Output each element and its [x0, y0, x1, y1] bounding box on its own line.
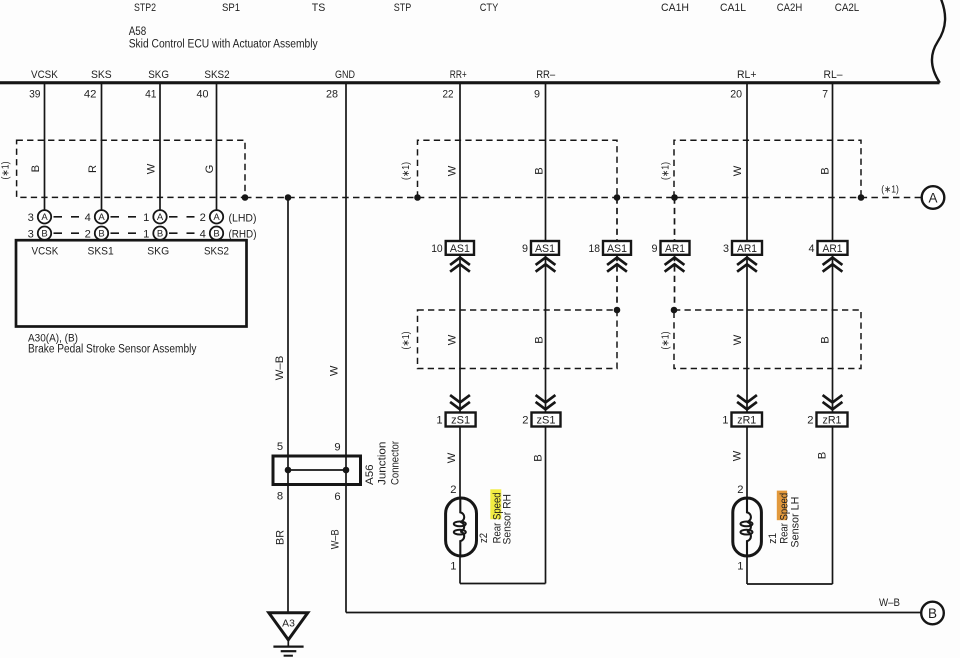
svg-text:zR1: zR1	[737, 415, 756, 427]
svg-text:AS1: AS1	[607, 243, 627, 255]
svg-text:CA1L: CA1L	[720, 2, 746, 14]
svg-text:SP1: SP1	[222, 2, 240, 14]
svg-text:B: B	[30, 165, 42, 172]
svg-text:9: 9	[534, 89, 540, 101]
svg-text:4: 4	[85, 212, 91, 224]
svg-text:B: B	[533, 454, 545, 461]
svg-text:W: W	[446, 452, 458, 463]
svg-text:AS1: AS1	[450, 243, 470, 255]
svg-text:W: W	[732, 165, 744, 176]
svg-text:z1: z1	[767, 533, 779, 544]
svg-text:A: A	[928, 190, 937, 205]
svg-text:2: 2	[200, 212, 206, 224]
svg-text:SKG: SKG	[147, 246, 169, 258]
svg-text:22: 22	[443, 89, 454, 101]
svg-text:CA1H: CA1H	[661, 2, 689, 14]
svg-text:A58: A58	[129, 26, 147, 38]
svg-text:42: 42	[84, 89, 97, 101]
svg-text:SKS2: SKS2	[204, 246, 229, 258]
svg-text:z2: z2	[478, 533, 490, 543]
svg-text:(∗1): (∗1)	[401, 162, 412, 180]
svg-text:A: A	[41, 212, 48, 223]
svg-text:BR: BR	[275, 530, 287, 545]
svg-text:(LHD): (LHD)	[229, 212, 257, 224]
svg-text:1: 1	[450, 561, 456, 573]
svg-text:10: 10	[431, 243, 443, 255]
svg-text:zS1: zS1	[537, 415, 556, 427]
svg-text:1: 1	[143, 228, 149, 240]
svg-text:CA2L: CA2L	[835, 2, 860, 14]
svg-text:Connector: Connector	[390, 441, 402, 485]
svg-text:2: 2	[737, 484, 743, 496]
svg-text:(∗1): (∗1)	[401, 332, 412, 350]
svg-text:A56: A56	[364, 464, 376, 485]
svg-text:2: 2	[522, 415, 528, 427]
svg-text:1: 1	[436, 415, 442, 427]
svg-text:G: G	[204, 165, 216, 174]
svg-text:B: B	[820, 167, 832, 174]
svg-text:5: 5	[277, 441, 283, 453]
svg-text:AS1: AS1	[535, 243, 555, 255]
svg-text:VCSK: VCSK	[31, 69, 58, 81]
svg-text:18: 18	[589, 243, 601, 255]
svg-text:B: B	[817, 452, 829, 459]
svg-text:(∗1): (∗1)	[661, 332, 672, 350]
svg-text:9: 9	[522, 243, 528, 255]
svg-text:9: 9	[652, 243, 658, 255]
svg-text:(∗1): (∗1)	[661, 162, 672, 180]
svg-text:B: B	[41, 229, 47, 240]
svg-text:A: A	[98, 212, 105, 223]
svg-text:W–B: W–B	[274, 356, 286, 381]
svg-text:AR1: AR1	[665, 243, 685, 255]
svg-text:1: 1	[737, 561, 743, 573]
svg-text:W–B: W–B	[330, 529, 342, 549]
svg-text:SKS: SKS	[91, 69, 112, 81]
svg-text:VCSK: VCSK	[32, 246, 59, 258]
svg-text:B: B	[820, 336, 832, 343]
svg-text:B: B	[98, 229, 104, 240]
svg-text:2: 2	[450, 484, 456, 496]
svg-text:SKG: SKG	[148, 69, 169, 81]
svg-text:Sensor RH: Sensor RH	[502, 494, 514, 545]
svg-text:zS1: zS1	[451, 415, 470, 427]
svg-text:40: 40	[197, 89, 209, 101]
svg-text:(∗1): (∗1)	[881, 185, 899, 196]
svg-text:AR1: AR1	[737, 243, 757, 255]
svg-text:RR–: RR–	[536, 69, 556, 81]
svg-text:Sensor LH: Sensor LH	[790, 497, 802, 548]
svg-text:B: B	[157, 229, 163, 240]
svg-text:W: W	[146, 163, 158, 174]
svg-text:W: W	[732, 334, 744, 345]
svg-text:W: W	[329, 365, 341, 376]
svg-text:SKS2: SKS2	[204, 69, 229, 81]
svg-text:1: 1	[143, 212, 149, 224]
svg-text:4: 4	[809, 243, 815, 255]
svg-text:2: 2	[85, 228, 91, 240]
svg-text:SKS1: SKS1	[88, 246, 114, 258]
svg-text:GND: GND	[335, 69, 355, 81]
svg-text:4: 4	[200, 228, 206, 240]
svg-text:A: A	[213, 212, 220, 223]
svg-text:zR1: zR1	[823, 415, 842, 427]
svg-text:W: W	[732, 450, 744, 461]
svg-text:2: 2	[807, 415, 813, 427]
svg-text:CTY: CTY	[480, 2, 499, 14]
svg-text:39: 39	[29, 89, 40, 101]
svg-text:3: 3	[28, 228, 34, 240]
svg-text:RL–: RL–	[824, 69, 844, 81]
svg-text:W: W	[447, 334, 459, 345]
svg-text:AR1: AR1	[823, 243, 843, 255]
svg-text:Skid Control ECU with Actuator: Skid Control ECU with Actuator Assembly	[129, 38, 318, 50]
svg-text:Junction: Junction	[377, 442, 389, 485]
svg-text:1: 1	[722, 415, 728, 427]
svg-text:R: R	[87, 165, 99, 173]
svg-text:CA2H: CA2H	[777, 2, 803, 14]
svg-text:Brake Pedal Stroke Sensor Asse: Brake Pedal Stroke Sensor Assembly	[28, 344, 197, 356]
svg-text:41: 41	[145, 89, 156, 101]
svg-text:20: 20	[730, 89, 742, 101]
svg-text:3: 3	[28, 212, 34, 224]
svg-text:3: 3	[723, 243, 729, 255]
svg-text:W–B: W–B	[879, 597, 900, 609]
svg-text:W: W	[447, 165, 459, 176]
svg-text:B: B	[534, 167, 546, 174]
svg-text:B: B	[534, 336, 546, 343]
svg-text:STP2: STP2	[134, 2, 156, 14]
svg-text:B: B	[213, 229, 219, 240]
svg-text:28: 28	[326, 89, 338, 101]
svg-text:RR+: RR+	[450, 69, 467, 81]
svg-text:7: 7	[822, 89, 828, 101]
svg-text:TS: TS	[312, 2, 326, 14]
svg-text:8: 8	[277, 491, 283, 503]
svg-text:9: 9	[334, 441, 340, 453]
svg-text:B: B	[928, 606, 937, 621]
svg-text:(∗1): (∗1)	[1, 162, 12, 180]
svg-text:STP: STP	[394, 2, 412, 14]
svg-text:RL+: RL+	[737, 69, 757, 81]
svg-text:A: A	[157, 212, 164, 223]
svg-text:6: 6	[334, 491, 340, 503]
svg-text:A3: A3	[282, 618, 295, 630]
